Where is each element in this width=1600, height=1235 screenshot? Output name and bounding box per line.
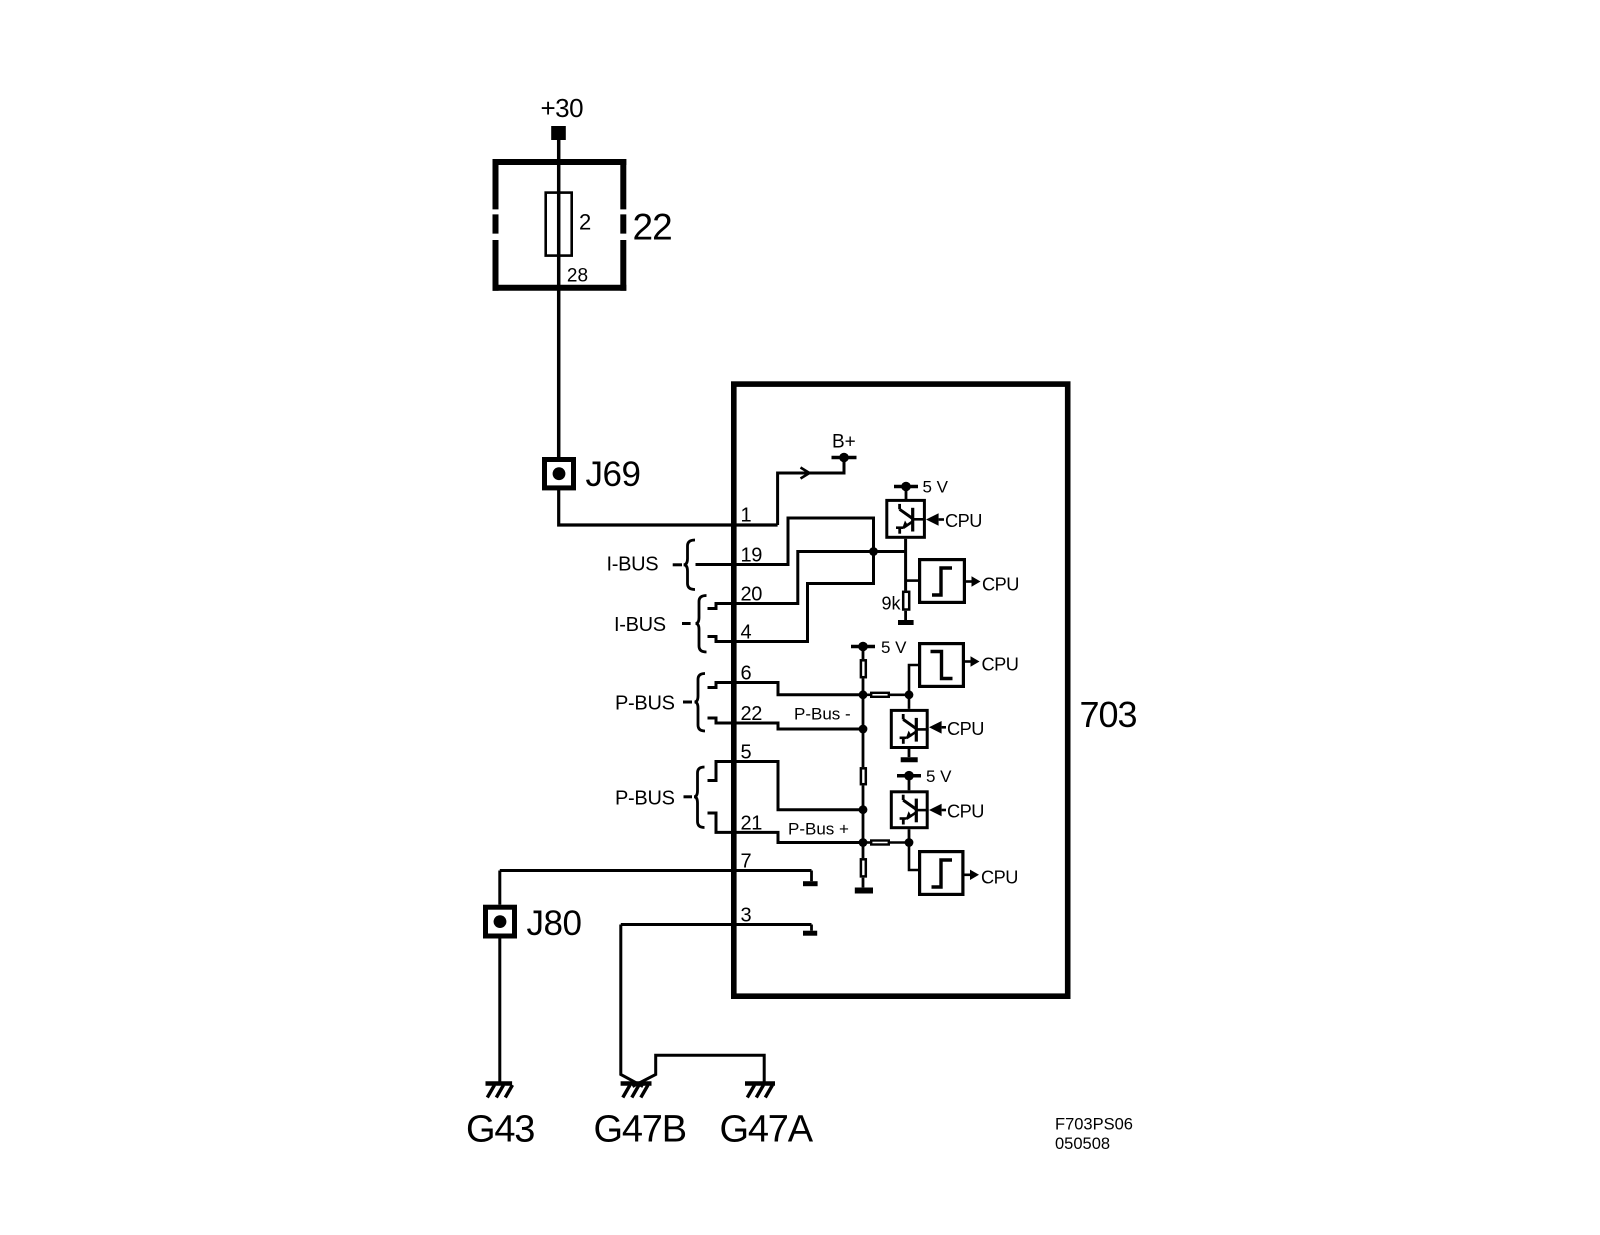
dash (pair 3) (683, 701, 692, 704)
dash (pair 1) (673, 563, 682, 566)
transceiver U2 symbol (900, 714, 929, 744)
fuse box 22 (dashed housing) (493, 159, 627, 291)
brace (pair 2) (696, 596, 707, 653)
ground G47B (621, 1084, 652, 1098)
svg-text:J80: J80 (527, 904, 582, 943)
5 V supply (top) (894, 482, 918, 499)
CPU input arrow U3 (929, 804, 946, 817)
wire pin 6 with hook to P-Bus minus top node (708, 683, 864, 695)
svg-text:5 V: 5 V (881, 638, 907, 657)
transceiver U3 box (891, 792, 927, 828)
svg-text:P-Bus +: P-Bus + (788, 820, 849, 839)
transceiver U1 box (887, 500, 925, 537)
schmitt A3 rising edge symbol (932, 860, 953, 887)
CPU output arrow A2 (965, 656, 980, 666)
ECU box 703 (734, 384, 1068, 996)
svg-text:9k: 9k (882, 594, 902, 614)
pin 3 internal terminal (803, 925, 817, 934)
ground stub below U2 (908, 749, 911, 757)
svg-text:2: 2 (579, 210, 591, 235)
svg-text:I-BUS: I-BUS (607, 554, 659, 576)
wire pin 7 to J80 (500, 869, 812, 872)
wire pin 4 with hook, staircase to I-BUS node (708, 552, 874, 642)
transceiver U3 symbol (900, 795, 929, 825)
CPU input arrow U2 (929, 721, 946, 734)
svg-text:5 V: 5 V (923, 478, 949, 497)
svg-text:1: 1 (741, 505, 752, 527)
ground G47A (745, 1084, 775, 1098)
pin 7 internal terminal (803, 871, 818, 884)
connector J80 (486, 907, 515, 936)
wire U3 to P-Bus plus node (908, 829, 911, 842)
ground G43 (486, 1084, 513, 1098)
wire pin 21 with hook to P-Bus plus node (708, 813, 864, 843)
series resistor R_D (863, 841, 909, 845)
fuse 2 (546, 193, 572, 256)
CPU output arrow A3 (965, 870, 980, 880)
svg-text:28: 28 (567, 265, 588, 286)
svg-text:P-Bus -: P-Bus - (794, 705, 851, 724)
svg-text:G47A: G47A (720, 1109, 814, 1151)
wire J80 to G43 (498, 939, 501, 1082)
schmitt A2 falling edge symbol (931, 652, 953, 679)
brace (pair 1) (684, 540, 695, 590)
junction node at U3 (905, 838, 914, 847)
schmitt trigger A1 box (920, 560, 965, 603)
5 V supply (middle) (851, 642, 875, 652)
svg-text:703: 703 (1080, 694, 1137, 735)
svg-text:P-BUS: P-BUS (615, 692, 675, 714)
svg-text:22: 22 (633, 207, 672, 248)
transceiver U1 symbol (896, 504, 925, 534)
junction pin 21 node (859, 838, 868, 847)
wire node to schmitt A2 input (909, 665, 918, 709)
brace (pair 3) (695, 674, 706, 732)
wire pin 19 staircase (696, 518, 874, 565)
transceiver U2 box (891, 710, 927, 747)
wire: +30 feed down through fuse to J69 (557, 140, 561, 457)
svg-text:CPU: CPU (981, 867, 1018, 887)
wire: J69 to ECU pin 1 (559, 490, 778, 525)
ground bar (U2) (901, 757, 918, 762)
5 V supply (bottom) (897, 771, 921, 790)
+30 terminal (551, 126, 566, 140)
pull resistor R_E (861, 859, 866, 887)
wire node to schmitt A3 input (909, 843, 918, 871)
svg-text:5 V: 5 V (926, 767, 952, 786)
wire: pin 1 to B+ (778, 458, 844, 526)
junction pin 6 node (859, 690, 868, 699)
wire to schmitt A1 input (906, 579, 918, 582)
wire pin 22 with hook to P-Bus minus node (708, 718, 864, 729)
svg-text:J69: J69 (586, 455, 641, 494)
ground bar (R_E) (855, 888, 873, 894)
dash (pair 4) (684, 795, 693, 798)
svg-text:F703PS06: F703PS06 (1055, 1116, 1133, 1134)
wire pin 3 to G47B (621, 925, 643, 1087)
series resistor R_B (863, 693, 909, 697)
CPU output arrow A1 (966, 576, 981, 586)
wire J80 drop (498, 871, 501, 905)
svg-text:P-BUS: P-BUS (615, 787, 675, 809)
svg-text:CPU: CPU (947, 802, 984, 822)
wire pin 5 with hook to P-Bus plus top node (708, 762, 864, 810)
wire G47A branch (633, 1055, 765, 1086)
wire pin 20 with hook, staircase to I-BUS node (708, 552, 906, 609)
ground bar (9k) (898, 620, 914, 625)
pull resistor R_A (861, 647, 866, 768)
wire pin 3 to G47B (621, 923, 812, 926)
junction node at U2 (905, 690, 914, 699)
svg-text:CPU: CPU (982, 654, 1019, 674)
svg-text:I-BUS: I-BUS (614, 614, 666, 636)
svg-text:050508: 050508 (1055, 1135, 1110, 1153)
svg-text:CPU: CPU (947, 719, 984, 739)
resistor 9k (903, 592, 909, 620)
arrow on B+ wire (801, 468, 810, 479)
brace (pair 4) (694, 767, 705, 828)
svg-text:B+: B+ (832, 432, 856, 453)
pull resistor R_C (861, 768, 866, 858)
svg-text:+30: +30 (541, 93, 584, 123)
wire U1 emitter down (904, 539, 907, 591)
CPU input arrow U1 (926, 513, 944, 526)
schmitt trigger A3 box (920, 852, 963, 895)
node B+ terminal (832, 453, 857, 463)
connector J69 (545, 460, 574, 488)
schmitt A1 rising edge symbol (932, 568, 952, 595)
junction pin 5 node (859, 805, 868, 814)
svg-text:CPU: CPU (945, 511, 982, 531)
dash (pair 2) (682, 622, 691, 625)
junction pin 22 node (859, 725, 868, 734)
schmitt trigger A2 box (920, 644, 964, 687)
junction I-BUS node (869, 547, 878, 556)
svg-text:G43: G43 (466, 1109, 534, 1151)
svg-text:CPU: CPU (982, 574, 1019, 594)
svg-text:G47B: G47B (594, 1109, 686, 1151)
